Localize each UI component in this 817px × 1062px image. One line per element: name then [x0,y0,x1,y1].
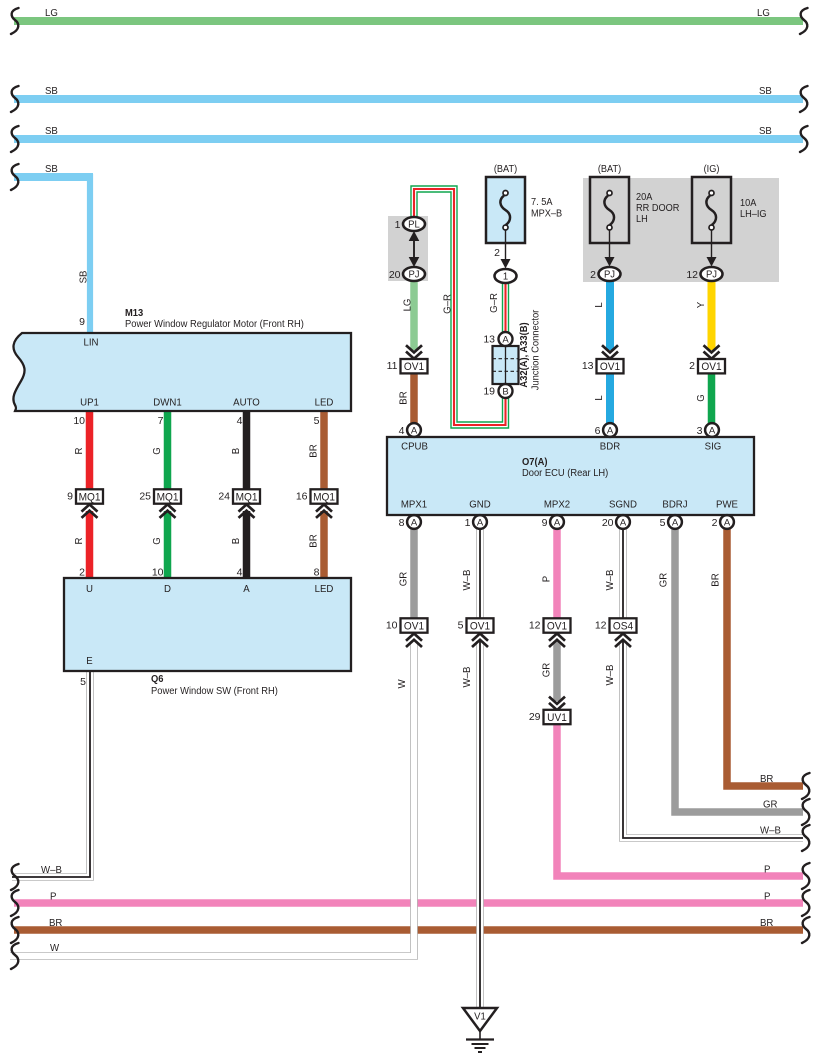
svg-text:G–R: G–R [489,293,500,313]
svg-text:W–B: W–B [760,825,781,836]
svg-text:A: A [672,517,679,528]
svg-text:AUTO: AUTO [233,397,260,408]
svg-text:L: L [594,302,605,308]
svg-text:2: 2 [494,247,500,259]
svg-text:2: 2 [79,567,85,579]
svg-text:W–B: W–B [462,666,473,687]
svg-text:R: R [74,448,85,455]
svg-text:10A: 10A [740,198,757,209]
svg-text:8: 8 [399,517,405,529]
svg-text:20A: 20A [636,192,653,203]
svg-text:MQ1: MQ1 [313,491,335,503]
svg-text:BR: BR [308,534,319,547]
svg-text:PJ: PJ [408,269,419,280]
svg-text:P: P [764,864,771,875]
svg-text:LG: LG [45,8,58,19]
svg-text:L: L [594,395,605,401]
svg-text:3: 3 [697,425,703,437]
svg-text:BR: BR [760,774,773,785]
svg-text:DWN1: DWN1 [153,397,182,408]
svg-text:12: 12 [686,269,698,281]
svg-text:OV1: OV1 [547,620,567,632]
svg-text:R: R [74,538,85,545]
svg-text:A32(A), A33(B): A32(A), A33(B) [519,322,531,387]
svg-text:LED: LED [315,584,334,595]
svg-text:G–R: G–R [442,294,453,314]
svg-text:PL: PL [408,219,420,230]
svg-text:10: 10 [152,567,164,579]
svg-text:20: 20 [389,269,401,281]
svg-text:G: G [152,447,163,455]
svg-text:B: B [231,448,242,455]
svg-text:SB: SB [45,86,58,97]
svg-text:2: 2 [712,517,718,529]
svg-text:PJ: PJ [706,269,717,280]
svg-text:W–B: W–B [605,664,616,685]
svg-text:Q6: Q6 [151,674,164,686]
svg-text:4: 4 [237,567,243,579]
svg-text:OV1: OV1 [600,361,620,373]
svg-text:9: 9 [79,316,85,328]
svg-text:OV1: OV1 [701,361,721,373]
svg-text:12: 12 [595,620,607,632]
svg-text:MQ1: MQ1 [236,491,258,503]
svg-text:W–B: W–B [605,569,616,590]
svg-text:4: 4 [399,425,405,437]
svg-text:13: 13 [483,334,495,346]
svg-text:E: E [86,656,93,667]
svg-text:RR DOOR: RR DOOR [636,203,679,214]
svg-text:A: A [554,517,561,528]
svg-text:A: A [502,334,509,345]
svg-text:SGND: SGND [609,499,637,510]
svg-text:10: 10 [386,620,398,632]
svg-text:LIN: LIN [83,337,98,348]
svg-text:16: 16 [296,491,308,503]
svg-text:9: 9 [67,491,73,503]
svg-text:A: A [607,425,614,436]
svg-text:OV1: OV1 [470,620,490,632]
svg-text:UV1: UV1 [547,711,567,723]
svg-text:SB: SB [759,126,772,137]
svg-text:W: W [50,943,60,954]
svg-text:W–B: W–B [41,865,62,876]
svg-text:U: U [86,584,93,595]
svg-text:9: 9 [542,517,548,529]
svg-text:BDRJ: BDRJ [662,499,687,510]
svg-text:SB: SB [759,86,772,97]
svg-text:P: P [50,891,57,902]
svg-text:5: 5 [314,415,320,427]
svg-text:6: 6 [595,425,601,437]
svg-text:PJ: PJ [604,269,615,280]
svg-text:Y: Y [696,302,707,309]
svg-text:4: 4 [237,415,243,427]
svg-text:(BAT): (BAT) [598,164,621,175]
svg-text:5: 5 [80,676,86,688]
svg-text:B: B [502,386,508,397]
svg-text:GR: GR [763,799,777,810]
svg-text:(IG): (IG) [704,164,720,175]
svg-text:UP1: UP1 [80,397,99,408]
svg-text:SIG: SIG [705,441,722,452]
svg-text:7. 5A: 7. 5A [531,197,553,208]
svg-text:MQ1: MQ1 [157,491,179,503]
svg-text:GR: GR [398,572,409,586]
svg-text:8: 8 [314,567,320,579]
svg-text:Power Window SW (Front RH): Power Window SW (Front RH) [151,686,278,698]
svg-text:CPUB: CPUB [401,441,428,452]
svg-text:(BAT): (BAT) [494,164,517,175]
svg-text:A: A [724,517,731,528]
svg-text:OV1: OV1 [404,620,424,632]
svg-text:V1: V1 [474,1011,486,1022]
svg-text:GR: GR [541,663,552,677]
svg-text:A: A [411,517,418,528]
svg-text:SB: SB [45,126,58,137]
svg-text:A: A [620,517,627,528]
svg-text:24: 24 [218,491,230,503]
svg-text:LH: LH [636,214,648,225]
svg-text:2: 2 [590,269,596,281]
svg-text:BR: BR [49,918,62,929]
svg-text:11: 11 [387,360,398,372]
svg-text:BR: BR [710,573,721,586]
svg-text:BR: BR [760,918,773,929]
svg-text:1: 1 [465,517,471,529]
svg-text:A: A [477,517,484,528]
svg-text:MPX1: MPX1 [401,499,428,510]
svg-text:Door ECU (Rear LH): Door ECU (Rear LH) [522,468,608,480]
svg-text:BDR: BDR [600,441,620,452]
svg-text:MPX2: MPX2 [544,499,571,510]
svg-text:19: 19 [483,386,495,398]
svg-text:LG: LG [402,298,413,311]
svg-text:1: 1 [503,271,508,282]
svg-text:A: A [243,584,250,595]
svg-text:MQ1: MQ1 [79,491,101,503]
svg-text:13: 13 [582,360,594,372]
svg-text:G: G [696,394,707,402]
svg-text:1: 1 [395,219,401,231]
svg-text:10: 10 [73,415,85,427]
svg-text:D: D [164,584,171,595]
svg-text:A: A [411,425,418,436]
svg-text:O7(A): O7(A) [522,457,547,469]
svg-text:5: 5 [660,517,666,529]
svg-text:25: 25 [139,491,151,503]
svg-text:GR: GR [658,573,669,587]
svg-text:M13: M13 [125,308,144,320]
svg-text:7: 7 [158,415,164,427]
svg-text:LG: LG [757,8,770,19]
svg-text:LH–IG: LH–IG [740,209,767,220]
svg-text:Power Window Regulator Motor (: Power Window Regulator Motor (Front RH) [125,319,304,331]
svg-text:SB: SB [45,164,58,175]
svg-text:BR: BR [308,444,319,457]
svg-text:PWE: PWE [716,499,738,510]
svg-text:P: P [764,891,771,902]
svg-text:29: 29 [529,711,541,723]
svg-text:LED: LED [315,397,334,408]
svg-text:OS4: OS4 [613,620,633,632]
svg-text:A: A [709,425,716,436]
svg-text:MPX–B: MPX–B [531,208,562,219]
svg-text:G: G [152,537,163,545]
svg-text:12: 12 [529,620,541,632]
svg-text:SB: SB [78,270,89,283]
svg-text:OV1: OV1 [404,361,424,373]
svg-text:W: W [397,679,408,689]
svg-text:5: 5 [458,620,464,632]
svg-text:BR: BR [398,391,409,404]
svg-text:W–B: W–B [462,569,473,590]
svg-text:P: P [541,576,552,583]
svg-text:2: 2 [689,360,695,372]
svg-text:B: B [231,538,242,545]
svg-text:GND: GND [469,499,490,510]
svg-text:20: 20 [602,517,614,529]
svg-text:Junction Connector: Junction Connector [530,309,542,390]
